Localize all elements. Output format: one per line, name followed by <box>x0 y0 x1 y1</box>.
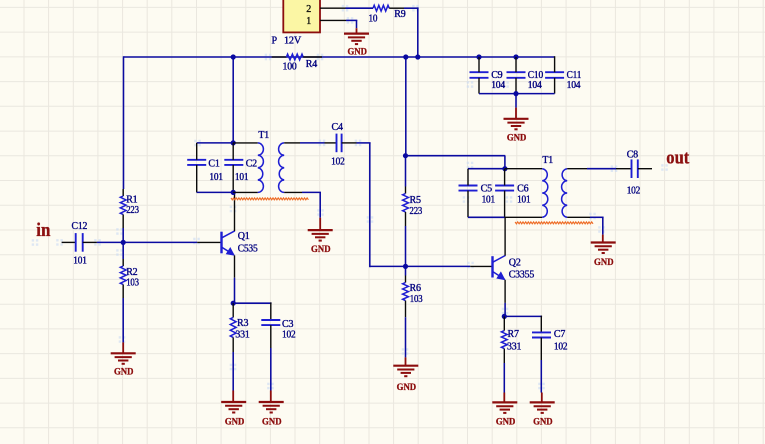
svg-text:104: 104 <box>528 80 542 91</box>
svg-text:101: 101 <box>482 195 496 206</box>
ground GND8 <box>530 401 555 403</box>
node C10 top <box>513 54 518 59</box>
transformer T1b secondary <box>562 169 568 218</box>
svg-text:GND: GND <box>311 244 331 255</box>
error marker squiggle 2 <box>515 222 593 224</box>
ground GND6 <box>591 241 616 243</box>
svg-text:102: 102 <box>627 186 641 197</box>
svg-text:10: 10 <box>369 13 378 24</box>
connector P 12V <box>283 0 320 32</box>
wire <box>122 228 124 242</box>
transistor Q2 <box>493 217 506 303</box>
wire <box>540 360 542 393</box>
wire <box>270 348 272 391</box>
wire <box>503 363 505 393</box>
R2 top pin <box>122 259 124 266</box>
wire left trunk <box>123 56 125 189</box>
node input <box>121 240 126 245</box>
svg-text:C8: C8 <box>627 150 638 161</box>
wire to C7 <box>504 315 542 317</box>
svg-text:223: 223 <box>126 205 139 216</box>
wire Q2 base <box>406 265 471 267</box>
ground GND2 stem <box>515 108 517 119</box>
wire <box>515 94 517 108</box>
transformer T1b primary <box>542 169 548 218</box>
svg-text:C6: C6 <box>517 184 528 195</box>
svg-text:GND: GND <box>594 257 614 268</box>
node rail-tank1 <box>231 54 236 59</box>
wire <box>122 242 124 259</box>
wire <box>504 303 506 317</box>
R5 bottom pin <box>405 212 407 226</box>
svg-text:1: 1 <box>306 16 311 27</box>
resistor R7 <box>501 331 507 349</box>
svg-text:12V: 12V <box>284 36 302 47</box>
svg-text:102: 102 <box>554 341 568 352</box>
svg-text:R2: R2 <box>126 267 137 278</box>
wire to GND6 <box>602 217 604 234</box>
R4 right pin <box>303 56 322 58</box>
node R5 top <box>403 153 408 158</box>
C12 left pin <box>62 241 76 243</box>
R6 top pin <box>405 276 407 283</box>
svg-text:101: 101 <box>235 172 249 183</box>
svg-text:T1: T1 <box>542 155 553 166</box>
svg-text:101: 101 <box>209 172 223 183</box>
C8 right pin <box>638 168 652 170</box>
node Q2 base <box>403 264 408 269</box>
R6 bottom pin <box>405 301 407 318</box>
ground GND1 stem <box>356 28 358 33</box>
R1 bottom pin <box>122 215 124 229</box>
capacitor C7 <box>532 331 551 333</box>
capacitor C9 <box>470 71 489 73</box>
svg-text:C3355: C3355 <box>509 270 534 281</box>
ground GND8 stem <box>541 393 543 403</box>
wire to right tank <box>406 155 506 157</box>
svg-text:104: 104 <box>567 80 581 91</box>
svg-text:102: 102 <box>282 330 296 341</box>
tank top lead black <box>233 142 258 144</box>
R9 right pin <box>389 7 404 9</box>
C12 right pin <box>83 241 97 243</box>
C7 bottom lead <box>540 338 542 361</box>
svg-text:331: 331 <box>507 341 521 352</box>
capacitor C1 <box>187 159 206 161</box>
wire <box>405 156 407 187</box>
wire rail to R5 node <box>405 57 407 156</box>
svg-text:GND: GND <box>533 417 553 428</box>
T1 sec top lead <box>284 142 300 144</box>
ground GND4 <box>221 401 246 403</box>
R1 top pin <box>122 189 124 196</box>
Q2 base pin <box>470 265 492 267</box>
R7 top pin <box>503 316 505 330</box>
wire <box>405 266 407 275</box>
svg-text:GND: GND <box>225 417 245 428</box>
capacitor C5 <box>459 185 478 187</box>
R3 top pin <box>232 303 234 317</box>
svg-text:101: 101 <box>517 195 531 206</box>
wire <box>346 19 357 21</box>
wire cap bank bottom <box>479 93 555 95</box>
svg-text:GND: GND <box>496 417 516 428</box>
C7 top lead <box>540 316 542 333</box>
svg-text:102: 102 <box>331 157 345 168</box>
error marker squiggle 1 <box>231 198 308 200</box>
svg-text:103: 103 <box>126 277 139 288</box>
svg-text:R3: R3 <box>237 318 248 329</box>
tank2 bottom lead black <box>505 216 543 218</box>
tank bottom lead black <box>233 191 258 193</box>
wire tank top <box>197 142 234 144</box>
node rail-R5 <box>403 54 408 59</box>
svg-text:C3: C3 <box>282 319 293 330</box>
node Q2 emitter <box>502 314 507 319</box>
node C9 top <box>476 54 481 59</box>
svg-text:Q2: Q2 <box>509 257 521 268</box>
ground GND7 <box>492 401 517 403</box>
R2 bottom pin <box>122 285 124 299</box>
T1 sec bottom lead <box>284 191 302 193</box>
ground GND5 stem <box>270 391 272 403</box>
resistor R6 <box>403 283 409 301</box>
svg-text:C7: C7 <box>554 329 565 340</box>
svg-text:Q1: Q1 <box>238 231 250 242</box>
wire trunk to tank <box>232 57 234 143</box>
resistor R3 <box>230 317 236 337</box>
svg-text:GND: GND <box>262 417 282 428</box>
svg-text:100: 100 <box>283 62 297 73</box>
svg-text:R5: R5 <box>410 195 421 206</box>
wire C4 corner <box>357 142 371 144</box>
svg-text:in: in <box>36 220 51 241</box>
node Q1 emitter <box>231 301 236 306</box>
wire <box>405 317 407 357</box>
transformer T1 secondary <box>279 143 285 193</box>
svg-text:out: out <box>666 147 690 168</box>
capacitor C6 <box>495 185 514 187</box>
C4 right pin <box>342 142 357 144</box>
Q1 base pin <box>197 241 221 243</box>
wire <box>234 278 236 304</box>
R4 left pin <box>272 56 287 58</box>
wire <box>404 7 419 9</box>
C4 left pin <box>325 142 337 144</box>
resistor R1 <box>120 196 126 215</box>
capacitor C11 <box>545 71 564 73</box>
T1b sec top lead <box>567 168 587 170</box>
pin 1 lead <box>320 19 346 21</box>
svg-text:2: 2 <box>306 4 311 15</box>
svg-text:C535: C535 <box>238 244 258 255</box>
capacitor C2 <box>224 159 243 161</box>
wire <box>122 298 124 342</box>
wire tank2 top <box>468 168 505 170</box>
transistor Q1 <box>222 192 235 277</box>
svg-text:C12: C12 <box>72 221 88 232</box>
ground GND3 <box>308 229 333 231</box>
wire input node <box>97 241 197 243</box>
ground GND7 stem <box>503 393 505 403</box>
ground GND4 stem <box>232 391 234 403</box>
resistor R9 <box>373 5 389 11</box>
ground GND3 stem <box>319 218 321 230</box>
svg-text:P: P <box>272 36 278 47</box>
ground GND5 <box>259 401 284 403</box>
svg-text:C4: C4 <box>332 122 343 133</box>
capacitor C12 <box>75 233 77 252</box>
svg-text:C2: C2 <box>246 158 257 169</box>
ground GND10 stem <box>122 342 124 353</box>
C8 left pin <box>616 168 632 170</box>
node cap bank gnd <box>513 91 518 96</box>
C3 bottom lead <box>270 325 272 348</box>
svg-text:GND: GND <box>114 367 134 378</box>
wire to GND3 <box>319 192 321 217</box>
pin 2 lead <box>320 7 346 9</box>
resistor R5 <box>403 194 409 213</box>
svg-text:R9: R9 <box>394 9 405 20</box>
tank2 top lead black <box>505 168 542 170</box>
svg-text:R4: R4 <box>306 59 317 70</box>
node tank1 top <box>231 140 236 145</box>
svg-text:331: 331 <box>235 330 249 341</box>
capacitor C8 <box>631 159 633 178</box>
svg-text:103: 103 <box>410 294 423 305</box>
node rail-R9 <box>415 54 420 59</box>
svg-text:104: 104 <box>491 80 505 91</box>
svg-text:GND: GND <box>347 46 367 57</box>
R3 bottom pin <box>232 337 234 352</box>
svg-text:R7: R7 <box>508 329 519 340</box>
resistor R2 <box>120 266 126 285</box>
R7 bottom pin <box>503 349 505 363</box>
svg-text:C1: C1 <box>208 158 219 169</box>
svg-text:223: 223 <box>410 206 423 217</box>
wire tank2 bottom <box>468 216 505 218</box>
wire <box>405 226 407 266</box>
wire <box>346 7 374 9</box>
R5 top pin <box>405 187 407 194</box>
wire to C3 <box>233 302 271 304</box>
svg-text:GND: GND <box>397 382 417 393</box>
resistor R4 <box>286 54 303 60</box>
ground GND9 stem <box>405 357 407 365</box>
grid snap endpoint markers <box>56 239 63 246</box>
ground GND9 <box>393 365 418 367</box>
capacitor C4 <box>336 134 338 153</box>
ground GND1 <box>344 32 369 34</box>
svg-text:101: 101 <box>73 256 87 267</box>
ground GND10 <box>111 352 136 354</box>
ground GND2 <box>504 118 529 120</box>
C3 top lead <box>270 302 272 320</box>
wire <box>232 352 234 391</box>
node tank2 top <box>502 166 507 171</box>
transformer T1 primary <box>258 143 264 193</box>
T1b sec bottom lead <box>567 216 590 218</box>
capacitor C3 <box>261 319 280 321</box>
svg-text:T1: T1 <box>258 130 269 141</box>
svg-text:GND: GND <box>507 133 527 144</box>
ground GND6 stem <box>602 235 604 243</box>
wire main rail <box>124 56 555 58</box>
node tank1 bottom <box>231 190 236 195</box>
svg-text:C5: C5 <box>481 184 492 195</box>
wire tank bottom <box>197 191 234 193</box>
capacitor C10 <box>507 71 526 73</box>
svg-text:R6: R6 <box>410 283 421 294</box>
svg-text:R1: R1 <box>126 194 137 205</box>
